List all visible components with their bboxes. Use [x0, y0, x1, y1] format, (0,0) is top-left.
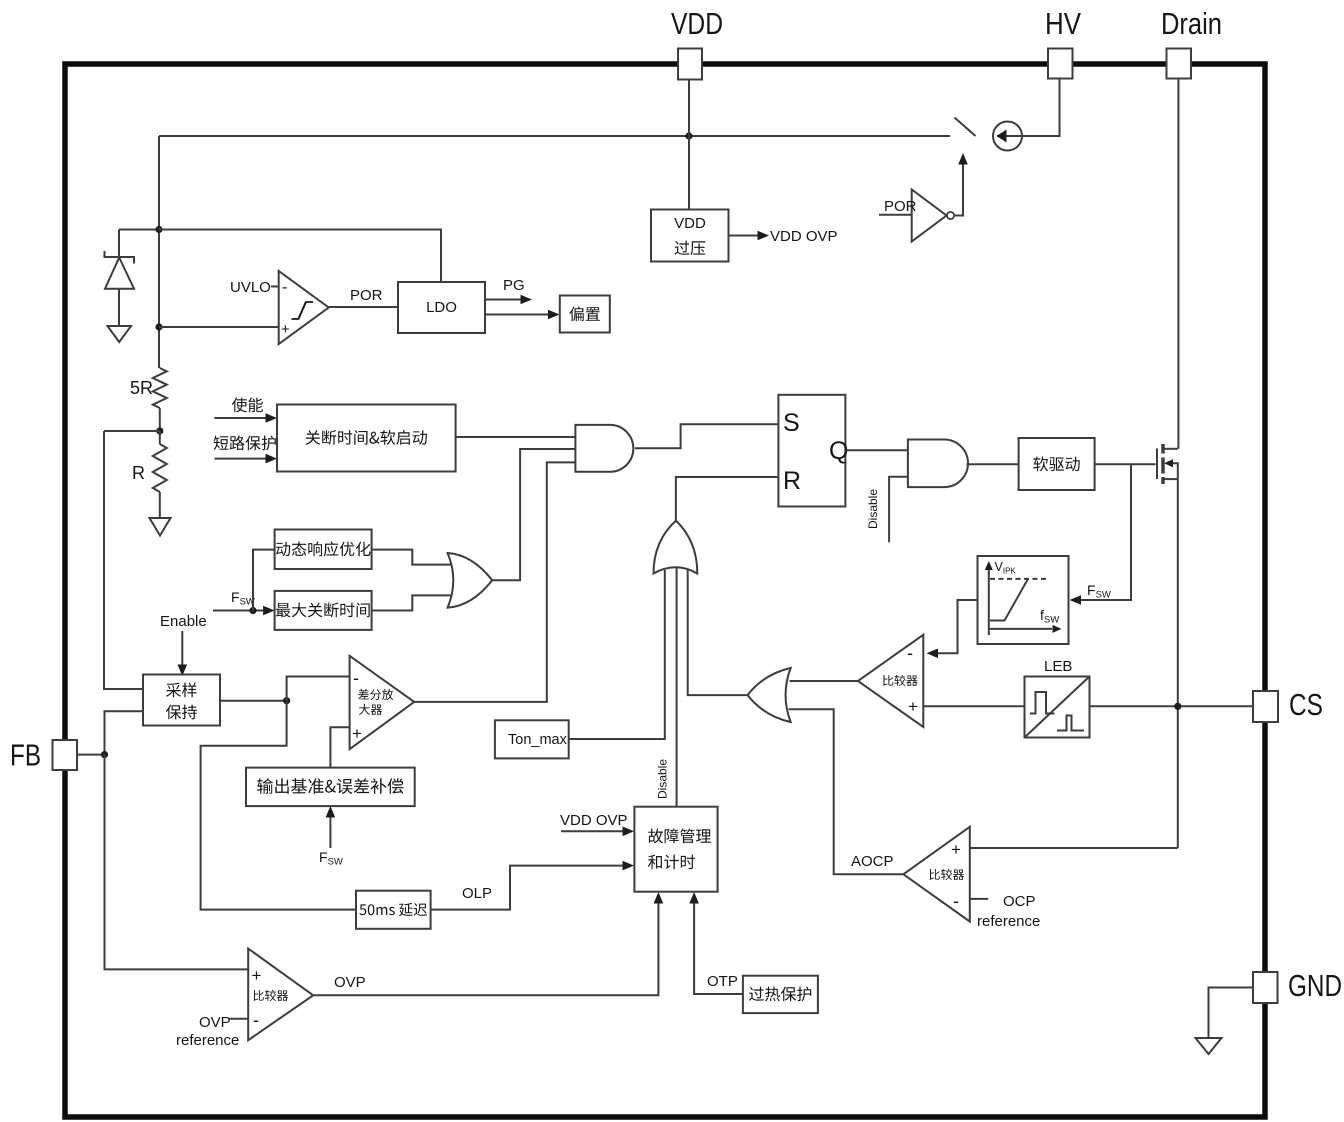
svg-text:+: +	[908, 697, 918, 716]
svg-text:LEB: LEB	[1044, 658, 1072, 675]
wire OR3 output into OR2	[688, 570, 748, 695]
svg-text:OTP: OTP	[707, 973, 738, 990]
wire OLP into fault block	[431, 866, 623, 910]
svg-text:S: S	[783, 409, 800, 437]
svg-text:POR: POR	[350, 287, 383, 304]
wire VDD OVP into fault block	[561, 830, 623, 832]
svg-text:FB: FB	[10, 738, 41, 773]
wire VDD tap to LDO top	[159, 230, 441, 283]
svg-text:CS: CS	[1289, 687, 1323, 722]
current source symbol	[993, 122, 1022, 151]
wire POR input	[879, 214, 912, 216]
node on riser (zener tap)	[155, 226, 162, 233]
svg-text:-: -	[253, 1010, 259, 1030]
op-amp differential amplifier (差分放大器)	[350, 656, 415, 749]
block off-time & soft-start (关断时间&软启动)	[277, 405, 456, 472]
svg-text:+: +	[951, 840, 961, 859]
node sample-hold output	[283, 697, 290, 704]
comparator current (比较器)	[858, 635, 923, 727]
wire POR comparator output to LDO	[329, 306, 398, 308]
wire Drain pin to MOSFET	[1177, 79, 1179, 449]
wire Disable from fault block into OR2	[676, 567, 678, 807]
wire MOSFET source down to CS rail	[1177, 479, 1179, 848]
wire left riser x159	[158, 136, 160, 368]
wire comparator output to OR3	[790, 680, 858, 682]
wire R input from OR2	[676, 477, 779, 521]
svg-text:-: -	[953, 891, 959, 911]
svg-text:+: +	[252, 966, 262, 985]
svg-text:-: -	[282, 279, 287, 296]
node Fsw branch	[249, 607, 256, 614]
wire AND1 output to S input	[635, 424, 779, 448]
svg-text:-: -	[907, 643, 913, 663]
wire amp plus input from reference block	[330, 727, 349, 767]
svg-text:VDD: VDD	[671, 6, 723, 41]
node FB	[101, 751, 108, 758]
wire AOCP minus stub	[970, 898, 988, 900]
svg-text:Disable: Disable	[656, 759, 670, 799]
label short-circuit protection (短路保护)	[214, 436, 276, 451]
svg-text:LDO: LDO	[426, 299, 457, 316]
block Ton_max	[495, 720, 569, 758]
pin CS	[1253, 691, 1278, 722]
wire inverter output to switch gate arrow	[954, 164, 963, 216]
wire node to amp minus input	[287, 677, 350, 701]
zener diode	[118, 230, 120, 258]
gate OR2 (reset combiner)	[654, 521, 698, 574]
gate OR3 (current fault)	[748, 668, 791, 722]
svg-text:OVP: OVP	[334, 974, 366, 991]
svg-text:-: -	[353, 668, 359, 688]
pin VDD	[678, 49, 702, 80]
latch SR	[778, 395, 845, 507]
ground below R	[159, 492, 161, 518]
node CS / MOSFET source	[1174, 703, 1181, 710]
block fault management & timing (故障管理和计时)	[634, 807, 717, 892]
ground GND	[1196, 1038, 1222, 1054]
wire node to zener	[119, 229, 159, 231]
wire current source to HV pin	[1022, 79, 1060, 137]
block dynamic response optimization (动态响应优化)	[275, 530, 372, 570]
wire short-circuit input	[215, 458, 267, 460]
gate AND1	[575, 425, 633, 472]
svg-text:PG: PG	[503, 277, 525, 294]
pin FB	[53, 740, 78, 770]
node UVLO tap	[155, 323, 162, 330]
block VDD overvoltage (VDD 过压)	[651, 210, 729, 262]
block sample and hold (采样保持)	[143, 675, 220, 726]
svg-text:AOCP: AOCP	[851, 853, 894, 870]
wire VDD pin down to VDD-OVP block	[688, 79, 690, 210]
wire amp output to AND gate riser	[414, 462, 575, 702]
block LEB	[1025, 677, 1090, 738]
switch HV startup	[955, 118, 976, 137]
wire Fsw tap down to V-IPK block	[1080, 464, 1131, 600]
svg-text:VDD OVP: VDD OVP	[770, 228, 838, 245]
block over-temperature protection (过热保护)	[743, 976, 818, 1013]
block LDO	[398, 282, 485, 333]
wire AOCP into OR3	[789, 709, 904, 874]
wire driver to MOSFET gate	[1095, 463, 1156, 465]
wire AND2 output	[967, 463, 1019, 465]
wire PG output	[485, 299, 521, 301]
svg-text:5R: 5R	[130, 378, 153, 398]
block bias (偏置)	[560, 296, 610, 333]
gate AND2	[908, 440, 968, 488]
svg-text:GND: GND	[1288, 968, 1342, 1003]
wire CS rail to AOCP plus	[970, 847, 1178, 849]
wire OR1 output up to AND gate	[491, 449, 575, 580]
svg-text:R: R	[783, 467, 801, 495]
wire divider tap riser into sample-hold	[104, 431, 143, 689]
wire Disable input to AND2	[889, 477, 908, 543]
wire enable input	[215, 417, 267, 419]
wire FB pin to node	[77, 754, 105, 756]
wire to UVLO comparator plus input	[159, 326, 279, 328]
gate OR1	[448, 553, 493, 608]
svg-text:reference: reference	[176, 1032, 239, 1049]
svg-text:Drain: Drain	[1161, 6, 1222, 41]
block max off time (最大关断时间)	[275, 591, 372, 630]
svg-text:POR: POR	[884, 198, 917, 215]
wire LDO to bias block	[485, 314, 548, 316]
block output reference & error compensation (输出基准&误差补偿)	[246, 768, 415, 807]
wire OTP into fault block	[694, 902, 743, 994]
wire Fsw to max-off-time	[213, 610, 264, 612]
node junction VDD rail	[685, 132, 692, 139]
wire Q output	[845, 449, 908, 451]
wire UVLO to minus input	[271, 286, 279, 288]
wire VDD OVP output	[729, 235, 759, 237]
wire comparator plus from LEB	[923, 705, 1024, 707]
pin Drain	[1167, 49, 1192, 79]
block soft drive (软驱动)	[1019, 438, 1095, 490]
comparator OVP (比较器)	[248, 949, 313, 1041]
block V-IPK vs fsw curve	[978, 556, 1069, 644]
wire FB node down to OVP comparator	[105, 755, 249, 970]
svg-text:VDD OVP: VDD OVP	[560, 812, 628, 829]
svg-text:OCP: OCP	[1003, 893, 1036, 910]
comparator AOCP (比较器)	[903, 827, 969, 922]
svg-text:Disable: Disable	[866, 489, 880, 529]
inverter POR	[912, 190, 947, 242]
svg-text:VDD: VDD	[674, 215, 706, 232]
wire OVP reference stub	[229, 1018, 248, 1020]
wire node down to 50ms delay	[201, 701, 356, 910]
svg-text:+: +	[352, 724, 362, 743]
wire OVP output to fault block	[313, 902, 658, 995]
resistor R	[159, 431, 161, 444]
svg-text:reference: reference	[977, 913, 1040, 930]
resistor 5R	[153, 368, 167, 408]
svg-text:+: +	[281, 321, 290, 338]
ground below zener	[108, 326, 132, 342]
node divider tap	[156, 427, 163, 434]
wire block output to AND gate	[456, 436, 576, 438]
wire top rail from left riser to HV switch	[159, 135, 950, 137]
wire Fsw arrow into reference block	[329, 816, 331, 848]
wire GND pin to ground symbol	[1209, 988, 1254, 1038]
svg-text:R: R	[132, 463, 145, 483]
wire Enable down arrow	[181, 631, 183, 666]
pin HV	[1048, 49, 1073, 79]
label enable (使能)	[232, 398, 263, 413]
wire tap to sample-hold riser	[104, 430, 160, 432]
wire dynamic block to OR1	[372, 550, 452, 565]
comparator UVLO (hysteresis)	[279, 271, 329, 344]
wire max-off block to OR1	[372, 595, 452, 610]
block 50ms delay (50ms 延迟)	[356, 891, 431, 929]
pin GND	[1253, 972, 1278, 1003]
svg-text:Enable: Enable	[160, 613, 207, 630]
svg-text:UVLO: UVLO	[230, 279, 271, 296]
transistor Q1 power MOSFET	[1156, 449, 1158, 480]
svg-text:OLP: OLP	[462, 885, 492, 902]
svg-text:OVP: OVP	[199, 1014, 231, 1031]
wire sample-hold output	[220, 700, 287, 702]
wire Fsw up to dynamic-response block	[253, 550, 275, 611]
wire LEB to CS pin	[1089, 705, 1253, 707]
svg-text:Ton_max: Ton_max	[508, 732, 568, 748]
wire Ton_max into OR2	[569, 570, 665, 739]
svg-text:HV: HV	[1045, 6, 1081, 41]
wire V-IPK output to comparator minus	[937, 600, 978, 653]
wire FB to sample-hold lower input	[105, 711, 144, 754]
